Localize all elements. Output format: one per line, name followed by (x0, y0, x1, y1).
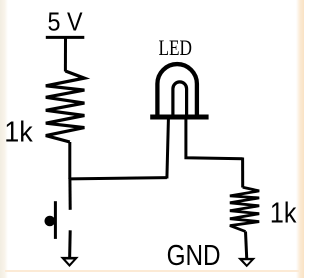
power rail 5V bar (46, 36, 85, 39)
resistor R1 (46, 71, 85, 142)
pushbutton S1 bottom contact (68, 230, 72, 260)
page edge line bottom (5, 270, 299, 272)
wire 5V to R1 (64, 38, 67, 72)
LED D1 base flange (150, 115, 208, 120)
svg-text:1k: 1k (4, 117, 33, 149)
wire R2 to ground (246, 232, 247, 261)
ground (left) (60, 257, 78, 267)
LED D1 outer dome (157, 64, 197, 115)
LED D1 anode lead / wire to R2 (186, 120, 243, 159)
wire R1 to node A (68, 142, 71, 179)
wire node A to LED anode (70, 178, 167, 179)
page edge band right (296, 0, 304, 278)
svg-text:1k: 1k (270, 197, 297, 229)
wire to R2 top (241, 158, 244, 188)
pushbutton S1 top contact (68, 178, 71, 210)
ground (right) (238, 258, 256, 267)
svg-text:LED: LED (159, 35, 193, 60)
resistor R2 (230, 187, 259, 231)
pushbutton S1 actuator bar (54, 201, 57, 239)
svg-text:GND: GND (167, 240, 221, 272)
LED D1 cathode lead (167, 120, 169, 179)
LED D1 inner dome (173, 82, 187, 115)
page edge band left (0, 0, 8, 278)
pushbutton S1 actuator knob (45, 216, 56, 227)
svg-text:5 V: 5 V (48, 6, 84, 36)
